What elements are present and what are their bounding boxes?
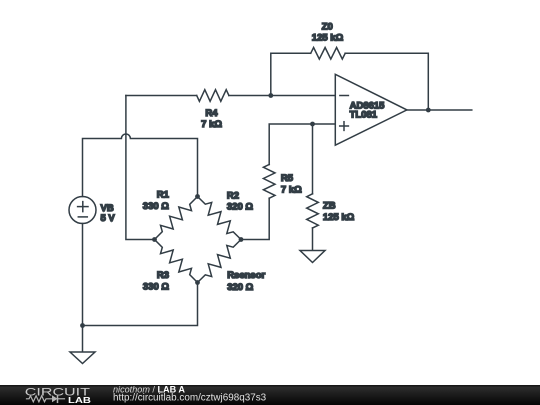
svg-text:ZB: ZB bbox=[323, 200, 336, 211]
node: bridge top bbox=[195, 194, 200, 199]
node: ground rail junction at VB bbox=[80, 323, 85, 328]
wire: Z0 left vertical from inverting-input node bbox=[271, 53, 311, 95]
logo diode symbol bbox=[52, 395, 58, 402]
svg-text:R2: R2 bbox=[227, 191, 239, 202]
svg-text:125 kΩ: 125 kΩ bbox=[312, 32, 344, 43]
resistor Rsensor 320 Ohm (bottom node to right node) bbox=[198, 240, 242, 283]
wire: bridge bottom node to ground rail bbox=[83, 283, 198, 326]
node: non-inverting input / ZB junction bbox=[310, 122, 315, 127]
resistor R1 330 Ohm (left node to top node) bbox=[155, 197, 198, 240]
node: bridge left bbox=[152, 237, 157, 242]
svg-text:7 kΩ: 7 kΩ bbox=[201, 119, 222, 130]
node: bridge bottom bbox=[195, 280, 200, 285]
svg-text:320 Ω: 320 Ω bbox=[227, 282, 253, 293]
wire: plus-input node down to ZB bbox=[312, 124, 314, 194]
svg-text:Rsensor: Rsensor bbox=[227, 270, 265, 281]
wire: ZB bottom to ground bbox=[312, 228, 314, 251]
svg-text:7 kΩ: 7 kΩ bbox=[281, 184, 302, 195]
voltage source VB circle bbox=[69, 197, 96, 224]
wire: left vertical rail down to bridge left node bbox=[126, 96, 155, 240]
svg-text:R4: R4 bbox=[205, 108, 218, 119]
wire: VB bottom lead down to ground rail bbox=[82, 224, 84, 353]
node: bridge right bbox=[239, 237, 244, 242]
op-amp U1 triangle AD8615 / TL081 bbox=[335, 74, 407, 145]
logo resistor zigzag bbox=[27, 396, 53, 402]
wire: R4 to op-amp inverting input bbox=[229, 95, 335, 97]
resistor R4 zigzag 7 kOhm bbox=[197, 90, 229, 102]
VB minus sign bbox=[78, 216, 87, 218]
resistor Z0 zigzag 125 kOhm bbox=[311, 48, 346, 60]
svg-text:5 V: 5 V bbox=[101, 213, 116, 224]
resistor R5 zigzag 7 kOhm bbox=[263, 165, 275, 199]
resistor ZB zigzag 125 kOhm bbox=[307, 194, 319, 228]
resistor R3 330 Ohm (left node to bottom node) bbox=[155, 240, 198, 283]
svg-text:TL081: TL081 bbox=[350, 109, 378, 120]
svg-text:330 Ω: 330 Ω bbox=[143, 281, 169, 292]
svg-text:330 Ω: 330 Ω bbox=[143, 201, 169, 212]
op-amp minus input sign bbox=[340, 95, 349, 97]
svg-text:R5: R5 bbox=[281, 173, 294, 184]
svg-text:http://circuitlab.com/cztwj698: http://circuitlab.com/cztwj698q37s3 bbox=[113, 393, 267, 404]
wire: inverting input horizontal left part bbox=[126, 95, 197, 97]
svg-text:Z0: Z0 bbox=[322, 21, 333, 32]
node: output / Z0 junction bbox=[426, 108, 431, 113]
svg-text:320 Ω: 320 Ω bbox=[227, 202, 253, 213]
wire: Z0 right to output vertical bbox=[345, 53, 428, 110]
node: inverting input / Z0 junction bbox=[268, 93, 273, 98]
svg-text:R3: R3 bbox=[157, 270, 169, 281]
svg-text:125 kΩ: 125 kΩ bbox=[323, 212, 355, 223]
resistor R2 320 Ohm (top node to right node) bbox=[198, 197, 242, 240]
op-amp plus input sign bbox=[340, 125, 349, 127]
VB plus sign bbox=[78, 206, 88, 208]
svg-text:LAB: LAB bbox=[68, 396, 91, 405]
wire: R5 top to non-inverting input bbox=[269, 124, 335, 165]
wire: bridge right node to R5 bottom bbox=[241, 198, 269, 239]
ground symbol under ZB bbox=[300, 251, 325, 263]
svg-text:R1: R1 bbox=[157, 190, 170, 201]
ground symbol under VB bbox=[70, 352, 95, 364]
wire: op-amp output bbox=[407, 109, 472, 111]
wire: VB top lead up and across with hop to bridge top bbox=[83, 134, 198, 197]
